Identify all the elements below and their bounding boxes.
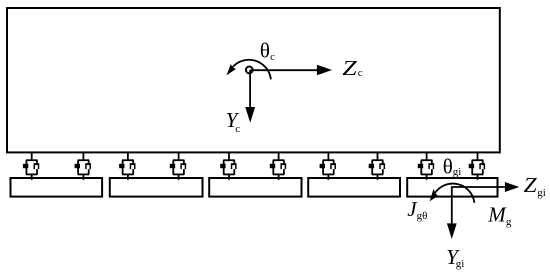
bogie 3 xyxy=(209,178,301,197)
spring-damper 5 xyxy=(220,152,236,180)
svg-text:c: c xyxy=(358,67,363,79)
origin circle of car-body frame xyxy=(246,67,253,74)
Ygi axis arrow xyxy=(451,186,453,224)
svg-text:M: M xyxy=(487,202,507,226)
svg-text:g: g xyxy=(506,216,512,228)
thetagi rotation arc arrow xyxy=(434,184,474,203)
spring-damper 9 xyxy=(418,152,434,180)
spring-damper 6 xyxy=(270,152,286,180)
car body xyxy=(7,8,500,152)
svg-text:gi: gi xyxy=(453,166,462,178)
svg-text:Z: Z xyxy=(524,173,537,197)
spring-damper 2 xyxy=(75,152,91,180)
bogie 5 xyxy=(407,178,497,197)
svg-text:gθ: gθ xyxy=(417,210,428,222)
spring-damper 7 xyxy=(320,152,336,180)
Zc axis arrow xyxy=(250,69,318,71)
svg-text:c: c xyxy=(235,123,240,135)
bogie 4 xyxy=(308,178,400,197)
spring-damper 3 xyxy=(119,152,135,180)
thetac rotation arc arrow xyxy=(232,60,271,80)
spring-damper 1 xyxy=(23,152,39,180)
svg-text:gi: gi xyxy=(537,187,546,199)
bogie 2 xyxy=(110,178,203,197)
svg-text:θ: θ xyxy=(260,38,270,62)
svg-text:gi: gi xyxy=(456,258,465,270)
bogie 1 xyxy=(11,178,103,197)
Yc axis arrow xyxy=(249,70,251,109)
svg-text:c: c xyxy=(270,51,275,63)
spring-damper 10 xyxy=(469,152,485,180)
spring-damper 4 xyxy=(170,152,186,180)
svg-text:Z: Z xyxy=(342,56,357,80)
spring-damper 8 xyxy=(369,152,385,180)
svg-text:θ: θ xyxy=(443,154,453,178)
Zgi axis arrow xyxy=(452,186,506,188)
